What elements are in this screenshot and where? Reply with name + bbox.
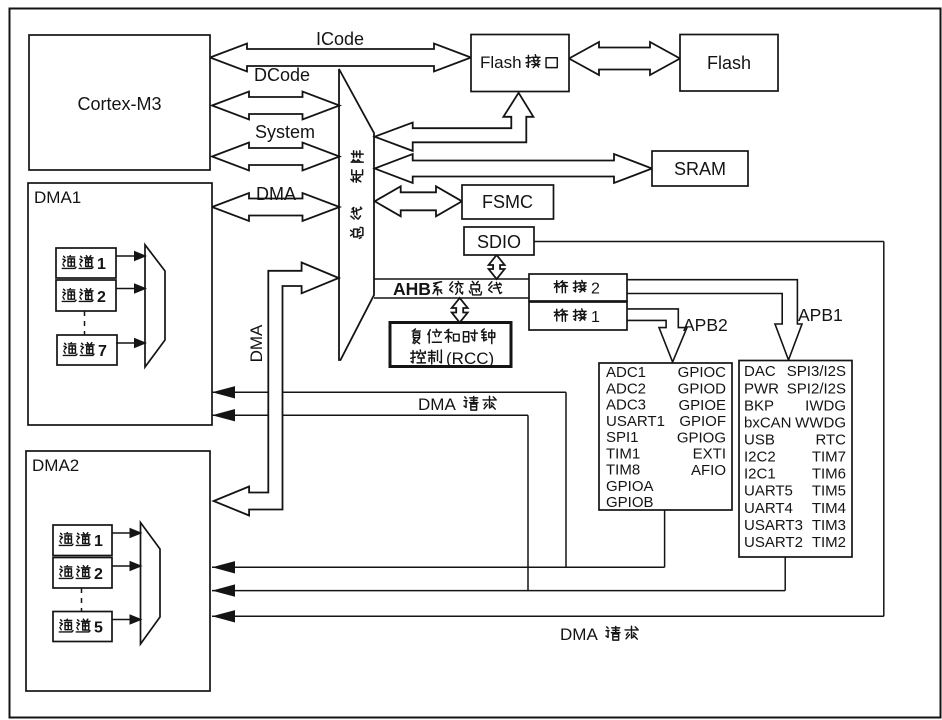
svg-text:TIM4: TIM4 (812, 500, 846, 517)
svg-text:DMA: DMA (418, 395, 456, 414)
svg-text:WWDG: WWDG (795, 414, 846, 431)
svg-text:ADC2: ADC2 (606, 380, 646, 397)
wire DMA request line A into DMA1 (212, 391, 566, 393)
block DMA1 (28, 183, 212, 425)
svg-text:RTC: RTC (815, 431, 846, 448)
svg-text:5: 5 (94, 620, 103, 637)
svg-text:System: System (255, 122, 315, 142)
DMA2 mux trapezoid (141, 523, 161, 645)
block DMA1 channel 通道7 (57, 335, 117, 365)
wire bridge2 to APB1 arrow (627, 280, 802, 360)
block DMA2 channel 通道1 (53, 525, 112, 556)
svg-text:SPI1: SPI1 (606, 429, 639, 446)
svg-text:EXTI: EXTI (693, 446, 726, 463)
svg-text:2: 2 (94, 566, 103, 583)
bus arrow System (212, 143, 340, 171)
block Cortex-M3 (29, 35, 210, 170)
bus arrow DCode (212, 92, 340, 120)
svg-text:TIM5: TIM5 (812, 483, 846, 500)
wire DMA request line 1 into DMA2 (212, 566, 665, 568)
block DMA2 (26, 451, 210, 691)
svg-text:AFIO: AFIO (691, 462, 726, 479)
svg-text:APB1: APB1 (798, 305, 843, 325)
svg-text:DMA: DMA (256, 184, 296, 204)
arrow SDIO to AHB bus (489, 255, 505, 279)
block Flash (680, 35, 778, 92)
bus matrix 总线矩阵 trapezoid (339, 69, 374, 360)
arrow 通道5 to mux (112, 619, 141, 621)
svg-text:SRAM: SRAM (674, 159, 726, 179)
elbow arrow matrix to Flash interface (375, 93, 534, 151)
bus arrow matrix to FSMC (375, 186, 462, 216)
svg-text:BKP: BKP (744, 397, 774, 414)
arrow 通道7 to mux (116, 342, 145, 344)
block APB1 peripherals (739, 361, 852, 558)
wire DMA request line 3 into DMA2 (212, 615, 884, 617)
svg-text:2: 2 (591, 281, 600, 298)
svg-text:(RCC): (RCC) (446, 349, 494, 368)
svg-text:UART4: UART4 (744, 500, 793, 517)
arrow 通道2 to mux (116, 288, 145, 290)
svg-text:USART1: USART1 (606, 413, 665, 430)
svg-text:SPI3/I2S: SPI3/I2S (787, 363, 846, 380)
svg-text:TIM2: TIM2 (812, 534, 846, 551)
svg-text:Cortex-M3: Cortex-M3 (77, 94, 161, 114)
svg-text:GPIOF: GPIOF (679, 413, 726, 430)
svg-text:ADC1: ADC1 (606, 364, 646, 381)
svg-text:TIM1: TIM1 (606, 445, 640, 462)
svg-text:ICode: ICode (316, 29, 364, 49)
wire DMA request line B into DMA1 (212, 414, 528, 416)
block SDIO (464, 227, 534, 255)
svg-text:I2C2: I2C2 (744, 449, 776, 466)
bus arrow DMA (DMA1 to matrix) (212, 193, 340, 221)
svg-text:2: 2 (97, 289, 106, 306)
wire bridge1 to APB2 arrow (627, 309, 687, 362)
block DMA1 channel 通道1 (56, 248, 116, 278)
svg-text:USART3: USART3 (744, 517, 803, 534)
block RCC 复位和时钟控制 (390, 323, 511, 367)
label 总线矩阵 (rotated) (351, 151, 364, 239)
svg-text:TIM7: TIM7 (812, 449, 846, 466)
svg-text:Flash: Flash (707, 53, 751, 73)
svg-text:TIM6: TIM6 (812, 466, 846, 483)
svg-text:UART5: UART5 (744, 483, 793, 500)
dashed link 通道2..通道7 (84, 311, 86, 335)
svg-text:SDIO: SDIO (477, 232, 521, 252)
svg-text:GPIOE: GPIOE (678, 397, 726, 414)
bus arrow matrix to SRAM (375, 154, 652, 183)
block DMA2 channel 通道5 (53, 612, 112, 642)
wire junction vertical from line B down to line 2 (527, 415, 529, 590)
wire DMA request line 2 into DMA2 (212, 590, 785, 592)
arrow 通道2 to mux (112, 565, 141, 567)
svg-text:GPIOC: GPIOC (678, 364, 727, 381)
wire APB2 peripherals to DMA request line 1 (664, 510, 666, 567)
svg-text:GPIOD: GPIOD (678, 381, 727, 398)
elbow arrow DMA2/DMA1 to matrix (vertical DMA trunk) (214, 263, 339, 516)
block bridge1 (桥接1) (529, 302, 627, 330)
svg-text:GPIOG: GPIOG (677, 429, 726, 446)
svg-text:DMA: DMA (560, 625, 598, 644)
block DMA1 channel 通道2 (56, 280, 116, 311)
svg-text:bxCAN: bxCAN (744, 414, 792, 431)
svg-text:DMA1: DMA1 (34, 188, 81, 207)
svg-text:USB: USB (744, 431, 775, 448)
svg-text:DMA: DMA (247, 324, 266, 362)
wire right-edge vertical down to DMA request line 3 (883, 242, 885, 617)
bus arrow ICode (210, 44, 471, 72)
svg-text:1: 1 (97, 256, 106, 273)
arrow 通道1 to mux (116, 255, 145, 257)
svg-text:I2C1: I2C1 (744, 466, 776, 483)
svg-text:1: 1 (591, 309, 600, 326)
block DMA2 channel 通道2 (53, 558, 112, 589)
svg-text:TIM3: TIM3 (812, 517, 846, 534)
svg-text:ADC3: ADC3 (606, 397, 646, 414)
svg-text:DMA2: DMA2 (32, 456, 79, 475)
svg-text:USART2: USART2 (744, 534, 803, 551)
svg-text:AHB: AHB (393, 279, 431, 299)
block SRAM (652, 151, 748, 186)
svg-text:Flash: Flash (480, 53, 522, 72)
arrow 通道1 to mux (112, 532, 141, 534)
svg-text:PWR: PWR (744, 380, 779, 397)
svg-text:GPIOB: GPIOB (606, 494, 654, 511)
svg-text:DCode: DCode (254, 65, 310, 85)
block Flash interface (Flash 接口) (471, 35, 569, 92)
bus AHB 系统总线 band (374, 278, 529, 280)
block bridge2 (桥接2) (529, 274, 627, 301)
arrow AHB bus to RCC (452, 298, 468, 323)
svg-text:DAC: DAC (744, 363, 776, 380)
dashed link 通道2..通道5 (81, 588, 83, 611)
svg-text:1: 1 (94, 533, 103, 550)
block APB2 peripherals (599, 363, 732, 510)
svg-text:IWDG: IWDG (805, 397, 846, 414)
wire SDIO to right edge (DMA request source) (534, 241, 884, 243)
bus arrow Flash interface to Flash (569, 42, 680, 75)
svg-text:GPIOA: GPIOA (606, 478, 654, 495)
svg-text:7: 7 (98, 343, 107, 360)
svg-text:TIM8: TIM8 (606, 462, 640, 479)
svg-text:SPI2/I2S: SPI2/I2S (787, 380, 846, 397)
DMA1 mux trapezoid (145, 245, 165, 367)
svg-text:APB2: APB2 (683, 315, 728, 335)
svg-text:FSMC: FSMC (482, 192, 533, 212)
wire junction vertical from line A down to line 1 (565, 392, 567, 567)
wire APB1 peripherals to DMA request line 2 (784, 557, 786, 591)
block FSMC (462, 185, 554, 219)
